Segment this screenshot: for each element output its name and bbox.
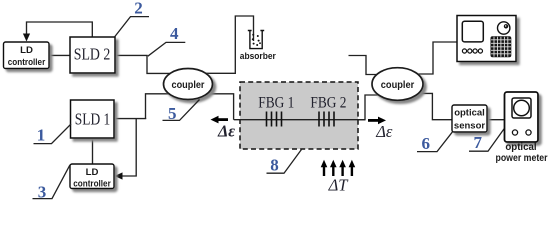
svg-text:power meter: power meter (496, 153, 548, 164)
wire coupler 2 upper-right port to OSA (419, 42, 458, 74)
wire feedback SLD 2 top to LD controller 1 (with down arrowhead) (27, 22, 93, 37)
wire LD controller 1 to SLD 2 (49, 54, 70, 56)
svg-text:FBG 1: FBG 1 (258, 95, 294, 112)
box SLD 1 (71, 100, 115, 138)
label 4 with leader (148, 42, 186, 56)
wire SLD 1 output to junction (114, 118, 146, 120)
box optical sensor (452, 105, 487, 132)
svg-text:controller: controller (73, 178, 111, 189)
svg-text:ΔT: ΔT (328, 175, 350, 194)
svg-text:absorber: absorber (240, 50, 276, 61)
OSA screen (462, 21, 483, 42)
wire SLD 1 bottom to LD controller 2 top (92, 138, 94, 164)
label 5 with leader (163, 100, 200, 121)
label 1 with leader (34, 124, 72, 144)
svg-text:optical: optical (454, 107, 485, 118)
FBG 2 grating ticks (319, 112, 334, 127)
coupler 1 ellipse (164, 69, 213, 100)
svg-text:4: 4 (170, 24, 179, 43)
svg-text:SLD 2: SLD 2 (74, 45, 111, 64)
coupler 2 ellipse (372, 68, 423, 101)
svg-text:coupler: coupler (172, 79, 205, 91)
label 3 with leader (33, 165, 71, 199)
box SLD 2 (70, 37, 115, 73)
power meter display (512, 98, 531, 118)
svg-text:sensor: sensor (454, 120, 485, 131)
wire coupler 1 upper-right port to absorber (206, 16, 254, 73)
svg-text:Δε: Δε (375, 122, 393, 141)
optical power meter box (505, 92, 539, 142)
FBG dashed box 8 (240, 82, 358, 149)
wire coupler 1 lower-right port down to FBG fiber (207, 94, 234, 120)
svg-text:7: 7 (474, 133, 483, 152)
wire SLD 2 output to coupler 1 upper-left port (115, 55, 170, 73)
svg-text:controller: controller (8, 57, 46, 68)
label 8 with leader (267, 149, 303, 173)
wire coupler 2 lower-right port to optical sensor (419, 93, 453, 119)
svg-text:SLD 1: SLD 1 (75, 109, 111, 128)
power meter knobs (512, 130, 517, 135)
svg-text:3: 3 (38, 182, 47, 201)
svg-text:optical: optical (505, 142, 536, 153)
wire junction down to LD controller 2 (with left arrowhead) (122, 119, 137, 176)
svg-text:FBG 2: FBG 2 (310, 95, 346, 112)
strain arrow left (delta-epsilon) (218, 118, 229, 121)
wire FBG fiber right end up to coupler 2 lower-left port (358, 95, 382, 120)
label 7 with leader (469, 129, 504, 152)
svg-text:Δε: Δε (217, 122, 235, 141)
temperature arrows (delta-T) (324, 166, 352, 176)
svg-text:LD: LD (86, 167, 99, 178)
svg-text:1: 1 (37, 126, 46, 145)
wire coupler 2 upper-left port (dangling end) (349, 56, 378, 75)
absorber particles (252, 34, 261, 46)
FBG fiber line (234, 119, 365, 121)
label 6 with leader (417, 132, 453, 152)
svg-text:6: 6 (421, 134, 430, 153)
wire junction up to coupler 1 lower-left port (146, 94, 170, 119)
wire optical sensor to optical power meter (487, 119, 505, 121)
svg-text:5: 5 (168, 104, 177, 123)
FBG 1 grating ticks (267, 112, 282, 127)
absorber container (248, 31, 264, 49)
OSA buttons row (462, 49, 482, 53)
label 2 with leader (115, 17, 150, 37)
svg-text:coupler: coupler (381, 79, 415, 91)
OSA knob (498, 22, 510, 34)
box LD controller 1 (4, 42, 50, 69)
box LD controller 2 (70, 164, 114, 189)
OSA instrument box (457, 16, 516, 62)
svg-text:LD: LD (20, 45, 33, 56)
svg-text:8: 8 (270, 155, 279, 174)
strain arrow right (delta-epsilon) (368, 119, 379, 122)
OSA keypad (491, 36, 512, 57)
power meter dial circle (514, 100, 530, 116)
svg-text:2: 2 (134, 0, 143, 17)
